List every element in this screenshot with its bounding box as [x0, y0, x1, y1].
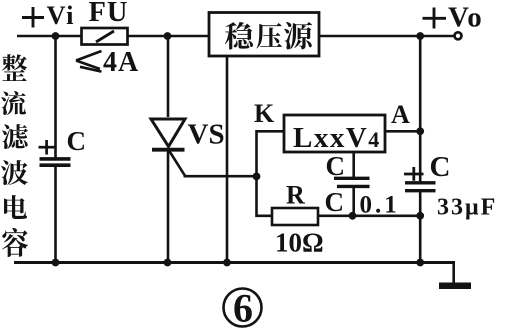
label + polarity of 33uF capacitor — [404, 173, 424, 176]
label +Vi — [22, 16, 44, 19]
svg-text:Vi: Vi — [47, 0, 76, 30]
regulator block U1 (stabilized voltage source) — [209, 13, 319, 57]
thyristor VS cathode bar — [152, 148, 185, 152]
capacitor C 0.1 plates — [334, 177, 370, 180]
wire: thyristor VS gate diagonal lead — [169, 151, 185, 176]
capacitor C (rectifier filter) plates — [40, 157, 71, 161]
svg-text:33μF: 33μF — [437, 195, 497, 221]
svg-text:Vo: Vo — [448, 2, 483, 34]
label: yuan (source) char of regulator box — [284, 22, 312, 49]
node: junction of regulator ground lead and bottom rail — [223, 259, 231, 267]
wire: capacitor C 0.1 bottom lead — [352, 186, 355, 216]
svg-text:0.1: 0.1 — [360, 192, 400, 219]
label: ya (voltage) char of regulator box — [256, 23, 282, 49]
label +Vo — [423, 17, 447, 20]
node: junction of R wire and output rail — [416, 212, 424, 220]
wire: top rail from fuse to regulator box — [127, 35, 210, 38]
terminal: +Vo output circle — [455, 32, 462, 39]
wire: ground drop lead — [452, 262, 455, 284]
svg-text:LxxV4: LxxV4 — [293, 122, 381, 154]
wire: output rail upper segment — [419, 36, 422, 182]
label <=4A fuse rating — [76, 51, 102, 61]
wire: R output to output rail — [318, 215, 420, 218]
node: junction of input rail and filter capacitor C branch — [52, 32, 60, 40]
capacitor C 33uF plates — [405, 181, 436, 184]
ground symbol (earth bar) — [439, 283, 471, 290]
svg-text:K: K — [254, 99, 275, 128]
svg-text:C: C — [326, 151, 346, 181]
node: junction of left capacitor and bottom rail — [52, 259, 60, 267]
caption char liu (flow) — [1, 91, 26, 115]
svg-text:4A: 4A — [103, 47, 139, 78]
caption char bo (wave) — [1, 160, 28, 185]
node K: junction of gate wire and K branch — [253, 173, 261, 181]
figure number 6 circle — [224, 289, 262, 327]
label + polarity of filter capacitor — [39, 146, 55, 149]
wire: LxxV4 anode lead to node A — [385, 130, 420, 133]
wire: node K vertical branch (LxxV4 cathode to R) — [257, 131, 285, 216]
wire: thyristor VS anode lead — [167, 36, 170, 117]
wire: top rail from +Vi input to fuse — [17, 35, 81, 38]
fuse FU — [82, 28, 128, 45]
wire: output rail lower segment — [419, 191, 422, 263]
thyristor VS triangle — [151, 119, 185, 147]
node: junction of VS cathode and bottom rail — [164, 259, 172, 267]
node: junction of top rail and right output rail — [416, 32, 424, 40]
resistor R body — [272, 208, 318, 225]
node: junction of output rail and bottom rail — [416, 259, 424, 267]
node A: junction of LxxV4 anode and output rail — [416, 127, 424, 135]
caption char rong (capacitor) — [2, 228, 28, 257]
caption char zheng (rectifier) — [2, 54, 27, 81]
svg-text:R: R — [286, 181, 305, 210]
svg-text:C: C — [67, 126, 87, 156]
wire: bottom rail — [14, 261, 455, 264]
svg-text:C: C — [430, 151, 451, 183]
node: junction of top rail and thyristor VS anode — [164, 32, 172, 40]
svg-text:C: C — [325, 187, 345, 217]
svg-text:VS: VS — [188, 119, 225, 151]
svg-text:FU: FU — [89, 0, 129, 28]
wire: capacitor C 0.1 top lead from LxxV4 — [352, 152, 355, 178]
wire: left capacitor C top lead — [54, 36, 57, 158]
wire: regulator box ground lead to bottom rail — [226, 56, 229, 263]
wire: thyristor VS cathode lead to bottom rail — [167, 150, 170, 263]
wire: gate wire to node K — [184, 175, 257, 178]
node: junction of R wire and capacitor C 0.1 lead — [349, 212, 357, 220]
caption char lv (filter) — [2, 124, 28, 149]
svg-text:10Ω: 10Ω — [275, 228, 324, 258]
wire: left capacitor C bottom lead — [54, 166, 57, 263]
caption char dian (electric) — [4, 195, 27, 219]
voltage reference U2 LxxV4 box — [284, 115, 385, 152]
svg-text:A: A — [391, 100, 410, 129]
label: wen (stable) char of regulator box — [225, 22, 253, 50]
wire: top rail from regulator box to +Vo terminal — [319, 35, 454, 38]
svg-text:6: 6 — [233, 286, 253, 331]
